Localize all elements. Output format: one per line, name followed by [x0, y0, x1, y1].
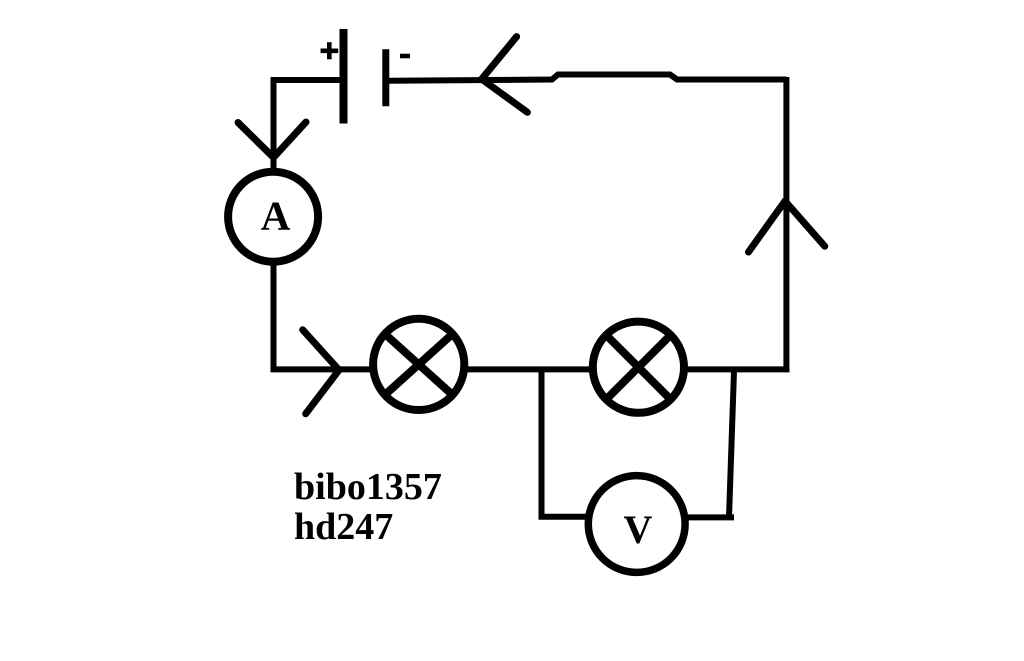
label - (negative terminal): [400, 54, 410, 59]
lamp L1 cross stroke 2: [385, 334, 452, 394]
node junction branch to voltmeter (left): [539, 368, 545, 517]
lamp L2 circle: [593, 322, 684, 413]
wire right vertical: [783, 77, 789, 372]
battery B1 negative plate: [382, 49, 389, 106]
label + (positive terminal): [321, 42, 339, 59]
wire top run from battery to top-right corner (with jog): [389, 75, 787, 81]
wire between lamp L1 and lamp L2: [462, 366, 595, 372]
node junction branch to voltmeter (right): [729, 371, 734, 517]
voltmeter V1 circle: [588, 476, 685, 573]
ammeter A1 circle: [228, 172, 318, 262]
lamp L1 cross stroke 1: [385, 334, 452, 394]
current arrow on bottom wire (pointing right): [303, 330, 339, 414]
lamp L2 cross stroke 2: [607, 335, 671, 399]
current arrow on right wire (pointing up): [749, 201, 825, 252]
lamp L2 cross stroke 1: [607, 335, 671, 399]
battery B1 positive plate: [340, 29, 348, 124]
lamp L1 circle: [373, 319, 464, 410]
svg-text:hd247: hd247: [294, 506, 393, 548]
wire lamp L2 to right vertical: [682, 366, 790, 372]
svg-text:V: V: [624, 507, 653, 552]
wire voltmeter bottom-left horizontal: [539, 514, 591, 520]
svg-text:A: A: [261, 192, 291, 238]
current arrow on left wire (pointing down): [238, 122, 306, 158]
wire from ammeter down and bottom-left horizontal: [274, 262, 375, 369]
svg-text:bibo1357: bibo1357: [294, 466, 442, 508]
wire top-left horizontal and left vertical drop: [274, 80, 342, 168]
wire voltmeter bottom-right horizontal: [684, 514, 734, 520]
current arrow on top wire (pointing left): [482, 37, 528, 113]
